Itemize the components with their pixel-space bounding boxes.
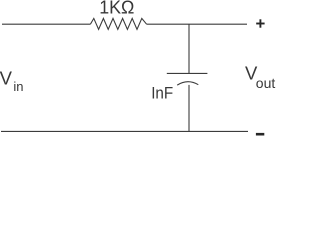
wire top-left horizontal <box>2 23 90 25</box>
svg-text:in: in <box>13 79 23 94</box>
wire bottom rail <box>1 130 248 132</box>
node junction to capacitor branch <box>188 24 190 73</box>
svg-text:InF: InF <box>151 83 173 102</box>
svg-text:out: out <box>256 75 276 91</box>
wire top-right horizontal <box>147 23 247 25</box>
svg-text:V: V <box>0 67 13 88</box>
plus terminal <box>256 19 264 27</box>
svg-text:1KΩ: 1KΩ <box>99 0 134 18</box>
capacitor C1 bottom curved plate <box>177 82 198 85</box>
resistor R1 zigzag <box>90 18 146 29</box>
capacitor C1 top plate <box>167 72 208 74</box>
minus terminal <box>256 133 264 136</box>
wire capacitor to bottom rail <box>188 85 190 131</box>
